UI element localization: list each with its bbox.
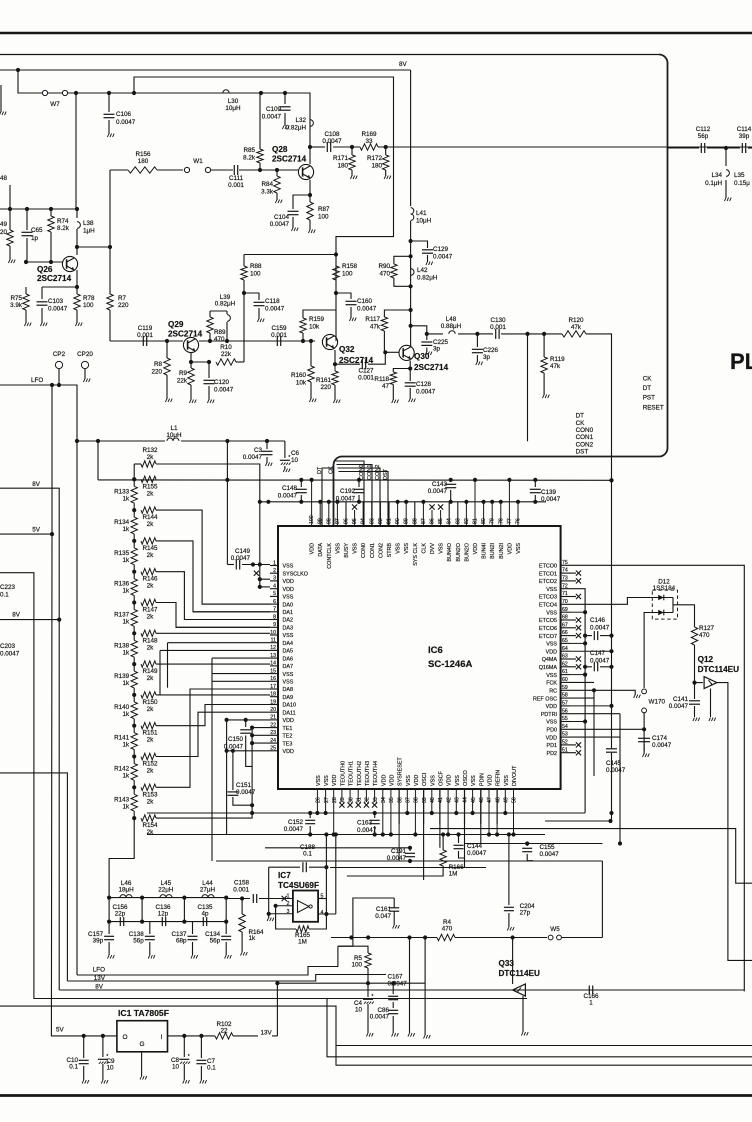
svg-text:1k: 1k [123, 649, 131, 656]
svg-text:C159: C159 [271, 325, 287, 332]
svg-text:180: 180 [138, 158, 149, 165]
svg-text:37: 37 [406, 797, 412, 803]
svg-text:4: 4 [273, 584, 276, 590]
svg-text:0.0047: 0.0047 [416, 389, 436, 396]
svg-text:SC-1246A: SC-1246A [428, 659, 472, 670]
svg-text:4p: 4p [201, 911, 209, 918]
svg-text:R90: R90 [378, 263, 390, 270]
svg-text:BUN4I: BUN4I [482, 543, 488, 559]
svg-text:3.3k: 3.3k [261, 189, 274, 196]
svg-text:56p: 56p [210, 938, 221, 945]
svg-text:C146: C146 [590, 617, 606, 624]
svg-text:ETCO7: ETCO7 [539, 634, 557, 640]
svg-text:C145: C145 [606, 760, 622, 767]
svg-text:BUN2I: BUN2I [499, 543, 505, 559]
svg-text:0.88μH: 0.88μH [441, 323, 462, 330]
svg-text:R152: R152 [142, 761, 158, 768]
svg-text:DST: DST [576, 449, 589, 456]
svg-text:1: 1 [589, 1000, 593, 1007]
svg-text:R158: R158 [342, 263, 358, 270]
svg-text:57: 57 [562, 701, 568, 707]
svg-text:R132: R132 [142, 447, 158, 454]
svg-text:53: 53 [562, 732, 568, 738]
svg-text:DTC114EU: DTC114EU [499, 969, 540, 978]
svg-text:C223: C223 [0, 584, 16, 591]
svg-text:VSS: VSS [439, 543, 445, 554]
svg-text:47k: 47k [550, 363, 561, 370]
svg-text:L41: L41 [416, 210, 427, 217]
svg-text:DA7: DA7 [283, 664, 294, 670]
svg-text:DA6: DA6 [283, 656, 294, 662]
svg-text:C106: C106 [116, 111, 132, 118]
svg-text:0.0047: 0.0047 [652, 742, 672, 749]
svg-text:42: 42 [446, 797, 452, 803]
svg-text:DA4: DA4 [283, 641, 294, 647]
svg-text:60: 60 [562, 677, 568, 683]
svg-text:OSCO: OSCO [463, 770, 469, 786]
svg-text:220: 220 [320, 384, 331, 391]
svg-text:13: 13 [270, 653, 276, 659]
svg-text:39p: 39p [93, 938, 104, 945]
svg-text:L35: L35 [734, 172, 745, 179]
svg-text:470: 470 [379, 271, 390, 278]
svg-text:VSS: VSS [283, 564, 294, 570]
svg-text:R171: R171 [333, 155, 349, 162]
svg-text:RC: RC [549, 689, 557, 695]
svg-text:0.82μH: 0.82μH [215, 301, 236, 308]
svg-text:1SS184: 1SS184 [653, 585, 676, 592]
svg-text:8V: 8V [12, 612, 21, 619]
svg-text:0.1μH: 0.1μH [705, 180, 722, 187]
svg-text:18: 18 [270, 692, 276, 698]
svg-text:10μH: 10μH [225, 105, 241, 112]
svg-text:0.0047: 0.0047 [322, 138, 342, 145]
svg-text:77: 77 [507, 518, 513, 524]
svg-text:DA3: DA3 [283, 626, 294, 632]
svg-text:C148: C148 [282, 485, 298, 492]
svg-text:L42: L42 [417, 267, 428, 274]
svg-text:54: 54 [562, 724, 568, 730]
svg-text:3.9k: 3.9k [10, 302, 23, 309]
svg-text:2k: 2k [147, 768, 155, 775]
svg-text:7: 7 [273, 607, 276, 613]
svg-text:VSS: VSS [283, 595, 294, 601]
svg-text:VSS: VSS [353, 543, 359, 554]
svg-text:1M: 1M [449, 871, 458, 878]
svg-text:10: 10 [107, 1065, 115, 1072]
svg-text:W1: W1 [193, 158, 203, 165]
svg-text:0.001: 0.001 [358, 375, 374, 382]
svg-text:0.0047: 0.0047 [243, 454, 263, 461]
svg-text:2k: 2k [147, 706, 155, 713]
svg-text:R172: R172 [367, 155, 383, 162]
svg-text:3p: 3p [483, 354, 491, 361]
svg-text:0.0047: 0.0047 [388, 981, 408, 988]
svg-text:R135: R135 [114, 550, 130, 557]
svg-text:27: 27 [324, 797, 330, 803]
svg-text:CK: CK [576, 420, 586, 427]
svg-text:VDD: VDD [488, 775, 494, 786]
svg-text:VSS: VSS [283, 672, 294, 678]
svg-text:29: 29 [340, 797, 346, 803]
svg-text:10: 10 [355, 1007, 363, 1014]
svg-text:TE2: TE2 [283, 734, 293, 740]
svg-text:0.0047: 0.0047 [284, 826, 304, 833]
svg-text:W7: W7 [50, 101, 60, 108]
svg-text:R169: R169 [361, 131, 377, 138]
svg-text:72: 72 [562, 583, 568, 589]
svg-text:46: 46 [479, 797, 485, 803]
svg-text:C129: C129 [433, 246, 449, 253]
svg-text:61: 61 [562, 669, 568, 675]
svg-text:IC6: IC6 [428, 645, 443, 656]
svg-text:C6: C6 [291, 450, 300, 457]
svg-text:9: 9 [273, 622, 276, 628]
svg-text:48: 48 [495, 797, 501, 803]
svg-text:8V: 8V [399, 61, 408, 68]
svg-text:VDD: VDD [414, 775, 420, 786]
svg-text:56p: 56p [698, 133, 709, 140]
svg-text:L48: L48 [446, 316, 457, 323]
svg-text:TE3: TE3 [283, 741, 293, 747]
svg-text:4: 4 [321, 910, 324, 916]
svg-text:DA2: DA2 [283, 618, 294, 624]
svg-text:32: 32 [365, 797, 371, 803]
svg-text:0.0047: 0.0047 [387, 855, 407, 862]
svg-text:R147: R147 [142, 607, 158, 614]
svg-text:22p: 22p [115, 911, 126, 918]
svg-text:VSS: VSS [396, 543, 402, 554]
svg-text:R155: R155 [142, 483, 158, 490]
svg-text:2k: 2k [147, 644, 155, 651]
svg-text:0.1: 0.1 [303, 851, 312, 858]
svg-text:CK: CK [643, 376, 653, 383]
svg-text:1k: 1k [123, 742, 131, 749]
svg-text:0.001: 0.001 [271, 332, 287, 339]
svg-text:Q4MA: Q4MA [542, 657, 558, 663]
svg-text:41: 41 [438, 797, 444, 803]
svg-text:64: 64 [562, 646, 568, 652]
svg-text:38: 38 [414, 797, 420, 803]
svg-text:0.0047: 0.0047 [278, 493, 298, 500]
svg-text:R7: R7 [118, 295, 127, 302]
svg-text:C163: C163 [357, 820, 373, 827]
svg-text:100: 100 [351, 962, 362, 969]
svg-text:DA8: DA8 [283, 687, 294, 693]
svg-text:*: * [372, 994, 374, 1000]
svg-text:28: 28 [332, 797, 338, 803]
svg-text:DT: DT [576, 413, 585, 420]
svg-text:44: 44 [463, 797, 469, 803]
svg-text:*: * [188, 1054, 190, 1060]
svg-text:18μH: 18μH [119, 887, 135, 894]
svg-text:CONTCLK: CONTCLK [327, 543, 333, 569]
svg-text:66: 66 [562, 630, 568, 636]
svg-text:C191: C191 [391, 848, 407, 855]
svg-text:OSCF: OSCF [438, 770, 444, 786]
svg-text:50: 50 [512, 797, 518, 803]
svg-text:R141: R141 [114, 735, 130, 742]
svg-text:VDD: VDD [332, 775, 338, 786]
svg-text:C160: C160 [357, 298, 373, 305]
svg-text:0.82μH: 0.82μH [417, 275, 438, 282]
svg-text:R137: R137 [114, 612, 130, 619]
svg-text:2: 2 [273, 568, 276, 574]
svg-text:CON0: CON0 [359, 464, 365, 480]
svg-text:L38: L38 [83, 220, 94, 227]
svg-text:TE1: TE1 [283, 726, 293, 732]
svg-text:0.1: 0.1 [0, 592, 9, 599]
svg-text:C152: C152 [288, 819, 304, 826]
svg-text:VSS: VSS [504, 775, 510, 786]
svg-text:VDD: VDD [546, 735, 557, 741]
svg-text:39: 39 [422, 797, 428, 803]
svg-text:26: 26 [316, 797, 322, 803]
svg-text:C161: C161 [376, 906, 392, 913]
svg-text:R156: R156 [135, 151, 151, 158]
svg-text:L30: L30 [228, 98, 239, 105]
svg-text:1k: 1k [123, 526, 131, 533]
svg-text:ETCO4: ETCO4 [539, 603, 557, 609]
svg-text:0.15μ: 0.15μ [734, 180, 750, 187]
svg-text:21: 21 [270, 715, 276, 721]
svg-text:FCK: FCK [546, 681, 557, 687]
svg-text:R159: R159 [309, 316, 325, 323]
svg-text:0.0047: 0.0047 [541, 496, 561, 503]
svg-text:DIVOUT: DIVOUT [512, 765, 518, 786]
svg-text:R89: R89 [214, 329, 226, 336]
svg-text:C109: C109 [266, 106, 282, 113]
svg-text:G: G [140, 1041, 145, 1048]
svg-text:O: O [123, 1034, 128, 1041]
svg-text:R88: R88 [250, 263, 262, 270]
svg-text:2k: 2k [147, 490, 155, 497]
svg-text:STRB: STRB [387, 543, 393, 558]
svg-text:ETCO6: ETCO6 [539, 626, 557, 632]
svg-text:R145: R145 [142, 545, 158, 552]
svg-text:0.0047: 0.0047 [669, 703, 689, 710]
svg-text:ETCO1: ETCO1 [539, 571, 557, 577]
svg-text:2k: 2k [147, 675, 155, 682]
svg-text:0.0047: 0.0047 [467, 850, 487, 857]
svg-text:0.0047: 0.0047 [116, 119, 136, 126]
svg-text:71: 71 [562, 591, 568, 597]
svg-text:CK: CK [329, 466, 335, 474]
svg-text:3: 3 [273, 576, 276, 582]
svg-text:VDD: VDD [283, 587, 294, 593]
svg-text:R133: R133 [114, 488, 130, 495]
svg-text:13V: 13V [261, 1030, 273, 1037]
svg-text:R150: R150 [142, 699, 158, 706]
svg-text:VDD: VDD [546, 649, 557, 655]
svg-text:C108: C108 [324, 131, 340, 138]
svg-text:CON2: CON2 [576, 441, 594, 448]
svg-text:VSS: VSS [516, 543, 522, 554]
svg-text:0.1: 0.1 [69, 1064, 78, 1071]
svg-text:VSS: VSS [283, 680, 294, 686]
svg-text:PD1: PD1 [547, 743, 558, 749]
svg-text:0.0047: 0.0047 [590, 625, 610, 632]
svg-text:DA0: DA0 [283, 602, 294, 608]
svg-text:49: 49 [504, 797, 510, 803]
svg-text:48: 48 [0, 175, 8, 182]
svg-text:0.0047: 0.0047 [370, 1014, 390, 1021]
svg-text:VSS: VSS [455, 775, 461, 786]
svg-text:14: 14 [270, 661, 276, 667]
svg-text:10: 10 [172, 1064, 180, 1071]
svg-text:W5: W5 [550, 926, 560, 933]
svg-text:CON1: CON1 [367, 464, 373, 480]
svg-text:27μH: 27μH [200, 887, 216, 894]
svg-text:2k: 2k [147, 614, 155, 621]
svg-text:1k: 1k [123, 588, 131, 595]
svg-text:PD2: PD2 [547, 751, 558, 757]
svg-text:VSS: VSS [546, 642, 557, 648]
svg-text:SYSCLKO: SYSCLKO [283, 571, 308, 577]
svg-text:R9: R9 [179, 370, 188, 377]
svg-text:180: 180 [371, 163, 382, 170]
svg-text:C128: C128 [416, 381, 432, 388]
svg-text:470: 470 [214, 336, 225, 343]
svg-text:56p: 56p [133, 938, 144, 945]
svg-text:56: 56 [562, 708, 568, 714]
svg-text:220: 220 [151, 369, 162, 376]
svg-text:58: 58 [562, 693, 568, 699]
svg-text:R74: R74 [57, 218, 69, 225]
svg-text:5: 5 [273, 591, 276, 597]
svg-text:8: 8 [273, 614, 276, 620]
svg-text:LFO: LFO [93, 967, 105, 974]
svg-text:VDD: VDD [283, 579, 294, 585]
svg-text:1M: 1M [298, 939, 307, 946]
svg-text:22μH: 22μH [158, 887, 174, 894]
svg-text:CON1: CON1 [370, 543, 376, 558]
svg-text:55: 55 [562, 716, 568, 722]
svg-text:TEOUTH1: TEOUTH1 [349, 761, 355, 786]
svg-text:ETCO5: ETCO5 [539, 618, 557, 624]
svg-text:PDTRI: PDTRI [541, 712, 557, 718]
svg-text:33: 33 [365, 138, 373, 145]
svg-text:470: 470 [699, 632, 710, 639]
svg-text:R75: R75 [10, 295, 22, 302]
svg-text:49: 49 [0, 221, 8, 228]
svg-text:TC4SU69F: TC4SU69F [278, 881, 319, 890]
svg-text:C111: C111 [229, 175, 244, 182]
svg-text:23: 23 [270, 730, 276, 736]
svg-text:DT: DT [643, 385, 652, 392]
svg-text:IC7: IC7 [278, 871, 291, 880]
svg-text:SYS CLK: SYS CLK [413, 543, 419, 566]
svg-text:Q32: Q32 [339, 345, 355, 354]
svg-text:L1: L1 [170, 425, 178, 432]
svg-text:TEOUTH0: TEOUTH0 [340, 761, 346, 786]
svg-text:C226: C226 [483, 347, 499, 354]
svg-text:R120: R120 [568, 317, 584, 324]
svg-text:Q26: Q26 [37, 265, 53, 274]
svg-text:PST: PST [643, 395, 655, 402]
svg-text:36: 36 [397, 797, 403, 803]
svg-text:0.1: 0.1 [207, 1065, 216, 1072]
svg-text:12: 12 [270, 645, 276, 651]
svg-text:R153: R153 [142, 791, 158, 798]
svg-text:C103: C103 [48, 298, 64, 305]
svg-text:8.2k: 8.2k [243, 155, 256, 162]
svg-text:CP2: CP2 [53, 351, 66, 358]
svg-text:2SC2714: 2SC2714 [414, 363, 449, 372]
svg-text:DTC114EU: DTC114EU [698, 665, 739, 674]
svg-text:OSCI: OSCI [422, 773, 428, 786]
svg-text:R154: R154 [142, 822, 158, 829]
svg-text:2SC2714: 2SC2714 [37, 274, 72, 283]
svg-text:VDD: VDD [283, 718, 294, 724]
svg-text:C120: C120 [214, 379, 230, 386]
svg-text:35: 35 [389, 797, 395, 803]
svg-text:BUN2O: BUN2O [464, 543, 470, 562]
svg-text:1k: 1k [249, 935, 257, 942]
svg-text:VSS: VSS [546, 673, 557, 679]
svg-text:0.0047: 0.0047 [357, 827, 377, 834]
svg-text:1k: 1k [123, 557, 131, 564]
svg-text:67: 67 [562, 622, 568, 628]
svg-text:VSS: VSS [316, 775, 322, 786]
svg-text:0.0047: 0.0047 [428, 488, 448, 495]
svg-text:52: 52 [562, 740, 568, 746]
svg-text:100: 100 [318, 214, 329, 221]
svg-text:20: 20 [270, 707, 276, 713]
svg-text:0.0047: 0.0047 [357, 306, 377, 313]
svg-text:11: 11 [271, 638, 276, 644]
svg-text:1p: 1p [31, 235, 39, 242]
svg-text:Q33: Q33 [499, 959, 515, 968]
svg-text:C174: C174 [652, 735, 668, 742]
svg-text:I: I [161, 1034, 163, 1041]
svg-text:VSS: VSS [471, 775, 477, 786]
svg-text:R85: R85 [243, 147, 255, 154]
svg-text:19: 19 [270, 699, 276, 705]
svg-text:68p: 68p [176, 938, 187, 945]
svg-text:C104: C104 [274, 214, 290, 221]
svg-text:2k: 2k [147, 552, 155, 559]
svg-text:180: 180 [337, 163, 348, 170]
svg-text:10μH: 10μH [416, 218, 432, 225]
svg-text:C139: C139 [541, 489, 557, 496]
svg-text:DA5: DA5 [283, 649, 294, 655]
svg-text:25: 25 [270, 746, 276, 752]
svg-text:C144: C144 [467, 843, 483, 850]
svg-text:70: 70 [562, 599, 568, 605]
svg-text:10μH: 10μH [166, 432, 182, 439]
svg-text:1k: 1k [123, 495, 131, 502]
svg-text:R142: R142 [114, 766, 130, 773]
svg-text:Q12: Q12 [698, 655, 714, 664]
svg-text:L32: L32 [295, 117, 306, 124]
svg-text:0.001: 0.001 [490, 324, 506, 331]
svg-text:5V: 5V [56, 1027, 65, 1034]
svg-text:R140: R140 [114, 704, 130, 711]
svg-text:C150: C150 [228, 736, 244, 743]
svg-text:100: 100 [342, 271, 353, 278]
svg-text:47k: 47k [370, 324, 381, 331]
svg-text:1k: 1k [123, 773, 131, 780]
svg-text:R10: R10 [220, 344, 232, 351]
svg-text:22: 22 [220, 1028, 228, 1035]
svg-text:1k: 1k [123, 680, 131, 687]
svg-text:VDD: VDD [310, 543, 316, 554]
svg-text:0.047: 0.047 [375, 913, 391, 920]
svg-text:ETCO3: ETCO3 [539, 595, 557, 601]
svg-text:39p: 39p [739, 133, 750, 140]
svg-text:59: 59 [562, 685, 568, 691]
